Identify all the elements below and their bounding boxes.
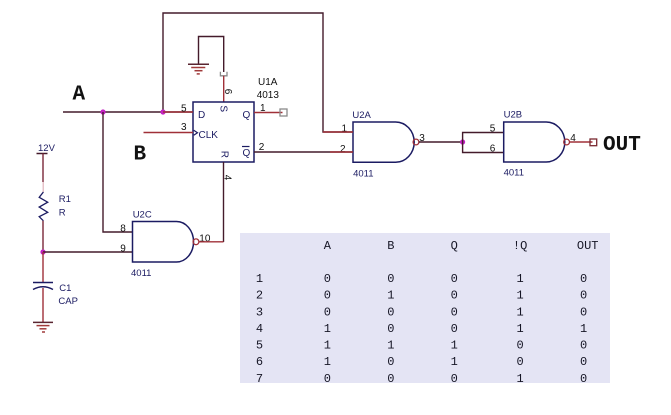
svg-text:4013: 4013 [257, 90, 280, 101]
op-amp U1A flip-flop body [193, 102, 254, 162]
node junction U2A out [460, 139, 465, 144]
wire stub D pin 5 [163, 111, 193, 113]
svg-text:CLK: CLK [199, 130, 219, 141]
U2C bubble [193, 239, 199, 245]
wire stub Q pin 1 [254, 112, 283, 114]
truth table row 5 [256, 339, 587, 353]
wire split to U2B pin5 [463, 133, 504, 143]
U2A bubble [413, 139, 419, 145]
svg-text:1: 1 [260, 103, 266, 114]
svg-text:7: 7 [256, 372, 263, 386]
wire U2C output to U1A reset [199, 241, 224, 243]
svg-text:CAP: CAP [58, 296, 78, 307]
svg-text:Q: Q [243, 148, 251, 159]
nand gate U2A body [353, 122, 414, 162]
wire stub R pin 4 down to U2C output [223, 162, 225, 242]
svg-text:8: 8 [120, 224, 126, 235]
svg-text:5: 5 [490, 124, 496, 135]
svg-text:0: 0 [451, 289, 458, 303]
wire stub U2A pin1 [323, 131, 353, 133]
terminal square pin 1 [280, 109, 287, 116]
svg-text:0: 0 [387, 372, 394, 386]
svg-text:0: 0 [451, 372, 458, 386]
svg-text:1: 1 [451, 355, 458, 369]
U1A CLK triangle [194, 130, 198, 135]
svg-text:1: 1 [517, 322, 524, 336]
wire 12V to resistor [42, 154, 44, 183]
truth table row 4 [256, 322, 587, 336]
svg-text:0: 0 [451, 305, 458, 319]
svg-text:4: 4 [256, 322, 263, 336]
svg-text:1: 1 [580, 322, 587, 336]
svg-text:6: 6 [222, 89, 233, 95]
wire stub CLK pin 3 [144, 132, 194, 134]
svg-text:1: 1 [387, 289, 394, 303]
svg-text:1: 1 [256, 272, 263, 286]
nand gate U2B body [504, 122, 565, 162]
wire ground net to U1A set pin [199, 37, 224, 73]
svg-text:1: 1 [387, 339, 394, 353]
svg-text:0: 0 [387, 322, 394, 336]
nand gate U2C body [133, 222, 194, 263]
svg-text:D: D [198, 110, 205, 121]
svg-text:R: R [219, 151, 230, 158]
svg-text:5: 5 [181, 103, 187, 114]
wire stub S pin 6 [223, 76, 225, 102]
truth table row 7 [256, 372, 587, 386]
svg-text:0: 0 [580, 305, 587, 319]
svg-text:0: 0 [580, 339, 587, 353]
svg-text:1: 1 [324, 355, 331, 369]
12V power bar [37, 153, 48, 155]
svg-text:C1: C1 [59, 283, 71, 294]
svg-text:0: 0 [324, 305, 331, 319]
svg-text:!Q: !Q [513, 239, 527, 253]
svg-text:9: 9 [120, 243, 126, 254]
svg-text:U2C: U2C [133, 210, 152, 221]
truth table row 2 [256, 289, 587, 303]
wire U2A output to node [419, 141, 463, 143]
svg-text:2: 2 [256, 289, 263, 303]
svg-text:0: 0 [387, 272, 394, 286]
truth table row 6 [256, 355, 587, 369]
svg-text:B: B [387, 239, 394, 253]
svg-text:0: 0 [517, 339, 524, 353]
svg-text:1: 1 [324, 339, 331, 353]
svg-text:4011: 4011 [504, 168, 524, 179]
wire capacitor to ground [42, 288, 44, 322]
node junction R1/C1 [40, 249, 45, 254]
svg-text:1: 1 [324, 322, 331, 336]
svg-text:4: 4 [222, 175, 233, 181]
svg-text:12V: 12V [38, 143, 56, 154]
svg-text:U1A: U1A [258, 77, 278, 88]
svg-text:0: 0 [580, 372, 587, 386]
wire node A horizontal [63, 111, 193, 113]
wire split to U2B pin6 [463, 142, 504, 153]
capacitor C1 bottom plate (curved) [33, 287, 53, 290]
wire net notQ from U1A to U2A pin2 [254, 151, 353, 153]
wire junction to U2C pin 9 [43, 251, 133, 253]
svg-text:0: 0 [580, 355, 587, 369]
svg-text:S: S [218, 105, 229, 112]
svg-text:U2B: U2B [504, 109, 522, 120]
svg-text:3: 3 [181, 122, 187, 133]
capacitor C1 top plate [33, 282, 53, 284]
svg-text:0: 0 [387, 355, 394, 369]
ground symbol bottom [33, 322, 53, 332]
svg-text:A: A [73, 84, 86, 107]
svg-text:A: A [324, 239, 332, 253]
svg-text:OUT: OUT [603, 134, 641, 157]
svg-text:0: 0 [517, 355, 524, 369]
truth table row 3 [256, 305, 587, 319]
svg-text:4011: 4011 [131, 268, 151, 279]
svg-text:OUT: OUT [577, 239, 599, 253]
svg-text:0: 0 [451, 272, 458, 286]
svg-text:3: 3 [256, 305, 263, 319]
resistor R1 [39, 192, 48, 221]
svg-text:U2A: U2A [352, 110, 371, 121]
svg-text:Q: Q [243, 110, 251, 121]
svg-text:1: 1 [517, 372, 524, 386]
U1A notQ overline [242, 146, 250, 148]
truth table background [240, 233, 610, 383]
terminal square OUT [590, 139, 597, 146]
svg-text:1: 1 [517, 289, 524, 303]
svg-text:6: 6 [256, 355, 263, 369]
wire junction to capacitor [42, 252, 44, 282]
wire from node A down to U2C pin 8 [103, 112, 133, 232]
svg-text:5: 5 [256, 339, 263, 353]
svg-text:0: 0 [580, 272, 587, 286]
svg-text:1: 1 [517, 272, 524, 286]
node A junction 1 [100, 109, 105, 114]
svg-text:6: 6 [490, 144, 496, 155]
svg-text:1: 1 [451, 339, 458, 353]
svg-text:0: 0 [324, 289, 331, 303]
svg-text:Q: Q [451, 239, 458, 253]
svg-text:B: B [134, 143, 147, 166]
svg-text:1: 1 [517, 305, 524, 319]
U2B bubble [564, 139, 570, 145]
wire resistor to junction [42, 221, 44, 252]
svg-text:0: 0 [324, 272, 331, 286]
svg-text:2: 2 [340, 144, 346, 155]
svg-text:4011: 4011 [353, 169, 373, 180]
wire U2B output [570, 141, 593, 143]
ground symbol top [188, 64, 209, 74]
svg-text:0: 0 [387, 305, 394, 319]
svg-text:R: R [59, 208, 66, 219]
svg-text:10: 10 [199, 234, 211, 245]
svg-text:0: 0 [580, 289, 587, 303]
svg-text:0: 0 [451, 322, 458, 336]
truth table header [324, 239, 599, 253]
terminal square pin 6 [220, 72, 227, 76]
node A junction 2 [160, 109, 165, 114]
wire top feedback loop from node A to U2A pin1 [163, 13, 353, 132]
truth table row 1 [256, 272, 587, 286]
wire stub U2A pin2 [330, 151, 353, 153]
svg-text:R1: R1 [59, 194, 71, 205]
svg-text:0: 0 [324, 372, 331, 386]
